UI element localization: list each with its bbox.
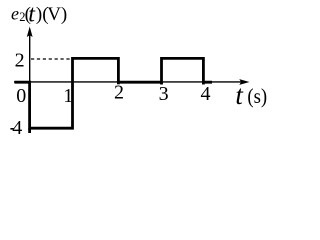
svg-text:2: 2 <box>114 81 124 103</box>
svg-text:3: 3 <box>159 83 169 105</box>
tick stub below axis at t=2 <box>117 82 120 84</box>
svg-text:0: 0 <box>16 85 26 107</box>
stub below -4 corner at t=0 <box>28 128 31 133</box>
svg-text:t: t <box>235 80 244 110</box>
y-axis arrowhead <box>27 27 33 38</box>
minus sign of -4 <box>10 128 13 130</box>
svg-text:4: 4 <box>201 83 211 105</box>
x-axis shaft <box>14 81 241 83</box>
svg-text:V: V <box>47 4 61 25</box>
tick stub below axis at t=3 <box>160 82 163 84</box>
svg-text:e: e <box>11 3 19 23</box>
svg-text:1: 1 <box>63 85 73 107</box>
svg-text:2: 2 <box>15 50 25 72</box>
svg-text:(s): (s) <box>247 84 267 108</box>
waveform polyline <box>15 58 213 128</box>
x-axis arrowhead <box>239 79 249 85</box>
dashed guide line at y=2 <box>31 58 72 60</box>
svg-text:): ) <box>61 4 67 25</box>
tick stub below axis at t=4 <box>202 82 205 84</box>
svg-text:4: 4 <box>12 117 22 139</box>
y-axis shaft <box>29 35 31 83</box>
